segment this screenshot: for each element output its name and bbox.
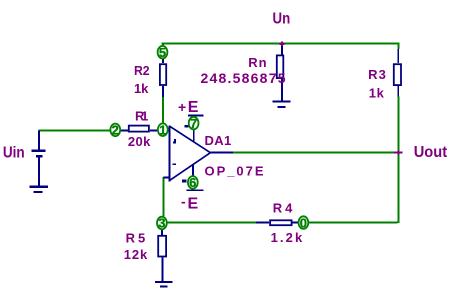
svg-text:6: 6 (189, 175, 196, 190)
resistor R1 right lead (150, 129, 157, 131)
svg-text:R2: R2 (134, 63, 150, 78)
ground under battery (29, 186, 48, 188)
op-amp pin 6 number tick (182, 180, 186, 183)
resistor R2 bottom lead (162, 86, 164, 97)
svg-text:E: E (188, 196, 199, 213)
node Uout junction cross (394, 151, 403, 153)
op-amp output navy segment (210, 152, 232, 154)
wire R3 top corner (397, 45, 399, 50)
wire R2 to node1 (162, 97, 164, 123)
battery V1 top lead (38, 130, 40, 149)
op-amp inverting minus mark (173, 164, 176, 166)
resistor R3 bottom lead (397, 86, 399, 96)
node 1 (158, 122, 168, 137)
svg-text:1: 1 (159, 122, 166, 137)
resistor R2 body (160, 64, 166, 85)
resistor R3 top lead (397, 49, 399, 63)
node 5 (158, 45, 168, 60)
op-amp pin 7 bar (188, 115, 204, 117)
wire battery to node2 (39, 129, 110, 131)
op-amp inverting input stub (164, 176, 169, 178)
battery V1 long plate (32, 150, 46, 152)
op-amp pin 7 line (193, 115, 195, 142)
svg-text:+: + (178, 99, 186, 115)
op-amp left edge (169, 125, 171, 181)
node 3 (157, 216, 167, 231)
node 0 (299, 215, 309, 230)
resistor R4 left lead (256, 221, 269, 223)
wire node3 to R4 (168, 221, 257, 223)
svg-text:3: 3 (158, 216, 165, 231)
svg-text:R1: R1 (135, 109, 148, 124)
wire R3 bottom vertical (397, 96, 399, 223)
svg-text:1k: 1k (134, 81, 149, 96)
svg-text:Uin: Uin (3, 145, 25, 162)
svg-text:5: 5 (159, 45, 166, 60)
resistor R5 bottom lead (162, 258, 164, 282)
resistor R4 right lead (293, 221, 298, 223)
wire node5 stub (162, 45, 164, 47)
battery V1 bottom lead (38, 157, 40, 185)
node 2 (110, 123, 120, 138)
node 7 (189, 116, 199, 131)
svg-text:20k: 20k (128, 134, 151, 149)
op-amp pin 6 line (192, 164, 194, 176)
op-amp U DA1 triangle edges (170, 126, 211, 153)
wire opamp inverting input down to node3 (162, 177, 164, 216)
svg-text:1k: 1k (369, 86, 385, 101)
op-amp pin 6 bar (187, 189, 204, 191)
resistor Rn top lead (281, 45, 283, 55)
svg-text:12k: 12k (124, 247, 148, 262)
node Un junction cross (280, 41, 403, 155)
resistor R3 body (394, 64, 401, 85)
svg-text:OP_07E: OP_07E (205, 164, 264, 179)
resistor R1 left lead (121, 129, 128, 131)
svg-text:248.586875: 248.586875 (201, 70, 286, 86)
svg-text:-: - (181, 194, 186, 210)
battery V1 short plate (36, 155, 43, 158)
ground under Rn (273, 101, 291, 103)
wire bottom rail node0 to corner (309, 221, 397, 223)
node 6 (188, 175, 198, 190)
svg-text:7: 7 (190, 116, 197, 131)
resistor R1 body (129, 126, 149, 132)
resistor R5 top lead (161, 230, 163, 235)
ground under R5 (155, 281, 173, 283)
resistor R4 body (270, 220, 292, 225)
svg-text:0: 0 (300, 215, 307, 230)
svg-text:1.2k: 1.2k (271, 230, 303, 245)
resistor Rn bottom lead (281, 79, 283, 101)
resistor R5 body (158, 236, 166, 257)
svg-text:Rn: Rn (248, 55, 266, 70)
wire output green segment (233, 152, 397, 154)
op-amp pin 7 number tick (184, 125, 188, 127)
svg-text:Un: Un (273, 11, 291, 28)
wire top rail Un net (39, 43, 400, 224)
svg-text:Uout: Uout (414, 144, 448, 161)
svg-text:2: 2 (112, 123, 119, 138)
svg-text:R3: R3 (368, 67, 386, 82)
svg-text:DA1: DA1 (205, 133, 232, 148)
resistor Rn body (277, 55, 284, 78)
resistor R2 top lead (162, 59, 164, 63)
op-amp noninverting mark (174, 139, 176, 143)
svg-text:E: E (188, 99, 199, 116)
